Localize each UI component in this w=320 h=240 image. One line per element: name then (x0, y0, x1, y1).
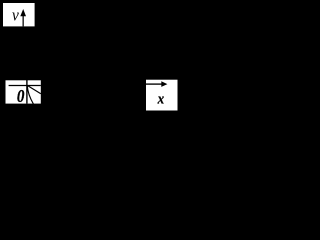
wire x-axis segment in origin window (9, 85, 41, 87)
wire trajectory line A (27, 85, 41, 93)
svg-text:0: 0 (17, 86, 25, 107)
v-axis arrowhead (20, 9, 26, 16)
wire trajectory curve C (27, 86, 33, 105)
node origin window (middle-left white box) (6, 80, 41, 103)
node v-axis window (top-left white box) (3, 3, 35, 26)
wire x-axis arrow stem (146, 83, 162, 85)
wire v-axis arrow stem (22, 15, 24, 26)
x-axis arrowhead (161, 81, 167, 87)
svg-text:x: x (157, 91, 165, 107)
node x-axis window (right white box) (146, 80, 178, 111)
wire v-axis segment in origin window (26, 80, 28, 104)
svg-text:v: v (12, 7, 20, 25)
